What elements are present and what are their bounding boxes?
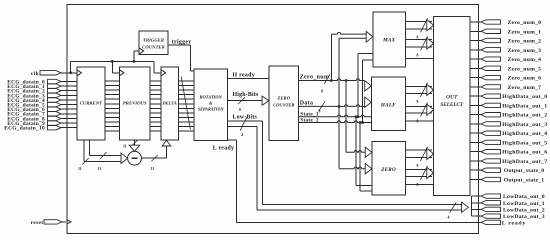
arrowhead MAX bus 1 into OUT SELELCT [427, 20, 434, 31]
riser State_2 to ZERO [359, 123, 361, 192]
junction Data riser [338, 105, 341, 108]
wire ZERO state out [406, 184, 434, 186]
wire HALF state out [406, 120, 434, 122]
output port LowData_out_1 [471, 202, 481, 204]
wire Zero_num trunk [299, 79, 365, 81]
svg-text:Zero_num_2: Zero_num_2 [508, 39, 542, 45]
wire clk drop to PREVIOUS [111, 61, 113, 72]
svg-text:High-Bits: High-Bits [233, 92, 260, 98]
wire clk drop to DELTA [153, 61, 155, 72]
block OUT SELELCT [434, 16, 470, 195]
svg-text:DELTA: DELTA [162, 101, 177, 106]
arrowhead into subtractor top [129, 145, 140, 151]
bus slash 8 High-Bits [238, 97, 245, 104]
svg-text:COUNTER: COUNTER [273, 103, 294, 108]
junction clk to PREVIOUS [111, 60, 114, 63]
svg-text:HALF: HALF [380, 102, 396, 108]
bus slash 11 on subtractor output [151, 155, 157, 161]
svg-text:Zero_num_0: Zero_num_0 [508, 20, 542, 26]
block ROTATION SEPARATION [194, 69, 227, 141]
LowData distribution bar [470, 196, 472, 216]
svg-text:ROTATION: ROTATION [200, 95, 223, 100]
output port Zero_num_5 [470, 67, 481, 69]
svg-text:HighData_out_7: HighData_out_7 [502, 159, 547, 165]
junction Zero_num down riser [345, 79, 348, 82]
svg-text:LowData_out_2: LowData_out_2 [503, 207, 545, 213]
clock wedge PREVIOUS [120, 70, 124, 76]
wire PREVIOUS to subtractor [134, 140, 136, 146]
svg-text:HighData_out_4: HighData_out_4 [502, 131, 547, 137]
arrowhead LowData bus [462, 202, 469, 212]
svg-text:trigger: trigger [172, 39, 192, 45]
svg-text:PREVIOUS: PREVIOUS [123, 101, 147, 106]
junction State_1 up [357, 115, 360, 118]
junction State_1 down [354, 115, 357, 118]
bus ladder DELTA to ROTATION [178, 80, 194, 82]
riser State_2 to MAX [362, 60, 364, 123]
block TRIGGER COUNTER [139, 31, 168, 55]
svg-text:TRIGGER: TRIGGER [143, 38, 164, 43]
bus slash 11 on tap 1 [100, 152, 106, 158]
wire clk rise to TRIGGER COUNTER [133, 51, 135, 62]
junction Zero_num riser [330, 79, 333, 82]
riser Zero_num to MAX [330, 34, 332, 80]
bus slash across DELTA ladder [181, 77, 190, 130]
svg-text:SELELCT: SELELCT [440, 102, 464, 108]
wire L ready [227, 139, 236, 141]
output port Zero_num_0 [470, 21, 481, 23]
register CURRENT [77, 67, 105, 140]
input port ECG_datain_6 [48, 107, 62, 111]
bus slash 4 Low-Bits [240, 117, 247, 130]
output port LowData_out_3 [471, 215, 481, 217]
svg-text:8: 8 [417, 54, 419, 58]
wire High-Bits bus [227, 100, 262, 102]
arrowhead ZERO bus 2 into OUT SELELCT [427, 167, 434, 178]
riser State_1 to MAX [357, 53, 359, 117]
bus slash 8 MAX out 1 [421, 18, 428, 32]
module outer boundary box [67, 5, 478, 234]
svg-text:Zero_num_6: Zero_num_6 [508, 76, 542, 82]
svg-text:8: 8 [319, 109, 321, 113]
output port HighData_out_7 [470, 160, 481, 162]
arrowhead bus 2 into ZERO [365, 164, 372, 174]
wire trigger [168, 44, 191, 46]
svg-text:8: 8 [417, 36, 419, 40]
bus slash 8 HALF out 2 [421, 102, 428, 116]
svg-text:HighData_out_1: HighData_out_1 [502, 103, 547, 109]
arrowhead bus 1 into HALF [365, 81, 372, 91]
arrowhead into DELTA bottom [162, 140, 171, 146]
svg-text:ECG_datain_10: ECG_datain_10 [4, 126, 45, 132]
svg-text:HighData_out_6: HighData_out_6 [502, 150, 547, 156]
clock wedge CURRENT [77, 70, 81, 76]
bus slash 4 LowData [450, 202, 457, 213]
output port HighData_out_5 [470, 141, 481, 143]
output port Zero_num_3 [470, 49, 481, 51]
svg-text:&: & [209, 101, 213, 106]
svg-text:LowData_out_1: LowData_out_1 [503, 201, 545, 207]
svg-text:Output_state_1: Output_state_1 [504, 178, 545, 184]
arrowhead ZERO bus 1 into OUT SELELCT [427, 148, 434, 159]
svg-text:SEPARATION: SEPARATION [198, 107, 225, 112]
svg-text:clk: clk [31, 71, 39, 77]
svg-text:L ready: L ready [502, 220, 526, 226]
input port ECG_datain_9 [48, 121, 62, 125]
bus ladder CURRENT to PREVIOUS [105, 80, 120, 82]
svg-text:8: 8 [417, 100, 419, 104]
svg-text:Zero_num_4: Zero_num_4 [508, 57, 542, 63]
arrowhead HALF bus 2 into OUT SELELCT [427, 104, 434, 115]
svg-text:LowData_out_3: LowData_out_3 [503, 214, 545, 220]
arrowhead High-Bits into ZERO COUNTER [262, 96, 269, 105]
wire CURRENT tap 1 to subtractor [88, 140, 90, 155]
input port ECG_datain_7 [48, 112, 62, 116]
svg-text:ZERO: ZERO [380, 167, 396, 173]
svg-text:11: 11 [123, 145, 127, 149]
wire Low-Bits lower [227, 126, 256, 128]
bus slash 8 Zero_num [324, 74, 330, 83]
svg-text:Output_state_0: Output_state_0 [504, 168, 545, 174]
wire HALF out bus 2 [406, 105, 432, 107]
riser Data to MAX and ZERO [338, 38, 340, 169]
svg-text:L ready: L ready [213, 146, 234, 152]
input port clk [40, 71, 61, 75]
svg-text:8: 8 [417, 164, 419, 168]
output port HighData_out_1 [470, 104, 481, 106]
input port ECG_datain_10 [48, 126, 62, 130]
arrowhead HALF bus 1 into OUT SELELCT [427, 84, 434, 95]
svg-text:LowData_out_0: LowData_out_0 [503, 194, 545, 200]
comparator HALF [371, 77, 405, 131]
output port HighData_out_2 [470, 114, 481, 116]
output port Zero_num_1 [470, 30, 481, 32]
output port Zero_num_4 [470, 58, 481, 60]
input port ECG_datain_8 [48, 116, 62, 120]
wire CURRENT tap 2 to subtractor [83, 140, 85, 161]
comparator MAX [373, 12, 406, 67]
svg-text:Data: Data [300, 100, 314, 106]
svg-text:HighData_out_5: HighData_out_5 [502, 140, 547, 146]
svg-text:HighData_out_0: HighData_out_0 [502, 94, 547, 100]
svg-text:HighData_out_3: HighData_out_3 [502, 122, 547, 128]
output port Zero_num_2 [470, 40, 481, 42]
svg-text:OUT: OUT [446, 95, 458, 101]
junction clk to TRIGGER COUNTER [133, 60, 136, 63]
junction State_2 up [361, 121, 364, 124]
wire HALF out bus 1 [406, 85, 432, 87]
wire State_1 trunk [299, 115, 372, 117]
arrowhead bus into MAX [366, 31, 373, 42]
svg-text:Zero_num_3: Zero_num_3 [508, 48, 542, 54]
bus slash 8 ZERO out 1 [421, 147, 428, 161]
svg-text:8: 8 [321, 90, 323, 94]
junction State_2 down [359, 121, 362, 124]
wire MAX out bus 1 [406, 20, 432, 22]
wire H ready [227, 77, 269, 79]
comparator ZERO [372, 142, 406, 196]
wire clk trunk [67, 72, 77, 74]
svg-text:State_2: State_2 [300, 117, 319, 123]
input port reset [44, 220, 62, 224]
wire ZERO out bus 2 [406, 168, 433, 170]
bus slash 8 HALF out 1 [421, 83, 428, 97]
bus slash 8 ZERO out 2 [421, 166, 428, 180]
subtractor circle minus [128, 151, 142, 165]
bus slash 11 on PREVIOUS drop [131, 140, 138, 147]
clock wedge DELTA [161, 70, 165, 76]
arrowhead bus 1 into ZERO [365, 147, 372, 157]
svg-text:4: 4 [241, 133, 243, 137]
input port ECG_datain_3 [48, 93, 62, 97]
svg-text:8: 8 [239, 108, 241, 112]
wire Data into ZERO block [339, 167, 365, 169]
output port Output_state_0 [470, 169, 481, 171]
input port ECG_datain_4 [48, 98, 62, 102]
wire ZERO out bus 1 [406, 149, 433, 151]
output port HighData_out_6 [470, 151, 481, 153]
input port ECG_datain_0 [48, 79, 62, 83]
wire Low-Bits upper [227, 120, 262, 122]
register DELTA [161, 67, 178, 140]
output port LowData_out_0 [471, 195, 481, 197]
arrowhead into subtractor left [121, 153, 128, 163]
svg-text:reset: reset [31, 220, 44, 226]
input port ECG_datain_1 [48, 84, 62, 88]
wire Data trunk [299, 105, 365, 107]
svg-text:ZERO: ZERO [276, 96, 290, 101]
svg-text:Low-Bits: Low-Bits [233, 114, 258, 120]
output port Zero_num_6 [470, 77, 481, 79]
arrowhead bus 2 into HALF [365, 97, 372, 107]
wire MAX state out [406, 57, 434, 59]
output port LowData_out_2 [471, 208, 481, 210]
block ZERO COUNTER [269, 66, 299, 140]
input port ECG_datain_5 [48, 102, 62, 106]
riser State_1 to ZERO [355, 117, 357, 186]
svg-text:COUNTER: COUNTER [142, 44, 165, 49]
svg-text:Zero_num: Zero_num [300, 75, 330, 81]
svg-text:Zero_num_7: Zero_num_7 [508, 85, 542, 91]
output port HighData_out_4 [470, 132, 481, 134]
svg-text:MAX: MAX [382, 38, 395, 44]
clock wedge TRIGGER COUNTER [139, 48, 143, 54]
wire subtractor output to DELTA [141, 157, 166, 159]
arrowhead MAX bus 2 into OUT SELELCT [427, 38, 434, 49]
output port L ready [481, 220, 501, 224]
output port HighData_out_0 [470, 95, 481, 97]
junction clk at CURRENT [69, 71, 72, 74]
riser Zero_num to ZERO [345, 81, 347, 153]
svg-text:Zero_num_5: Zero_num_5 [508, 66, 542, 72]
wire State_2 trunk [299, 121, 372, 123]
bus slash 8 MAX out 2 [421, 36, 428, 50]
bus slash 8 Data [319, 101, 325, 111]
svg-text:4: 4 [448, 216, 450, 220]
output port HighData_out_3 [470, 123, 481, 125]
bus slash 11 on tap 2 [82, 158, 88, 164]
output port Output_state_1 [470, 179, 481, 181]
svg-text:Zero_num_1: Zero_num_1 [508, 29, 542, 35]
svg-text:CURRENT: CURRENT [80, 101, 102, 106]
svg-text:HighData_out_2: HighData_out_2 [502, 113, 547, 119]
register PREVIOUS [120, 67, 151, 140]
input port ECG_datain_2 [48, 89, 62, 93]
output port Zero_num_7 [470, 86, 481, 88]
wire MAX out bus 2 [406, 39, 432, 41]
svg-text:11: 11 [78, 167, 82, 171]
bus ladder PREVIOUS to DELTA [150, 80, 161, 82]
svg-text:11: 11 [151, 167, 155, 171]
svg-text:11: 11 [98, 167, 102, 171]
svg-text:H ready: H ready [233, 72, 255, 78]
